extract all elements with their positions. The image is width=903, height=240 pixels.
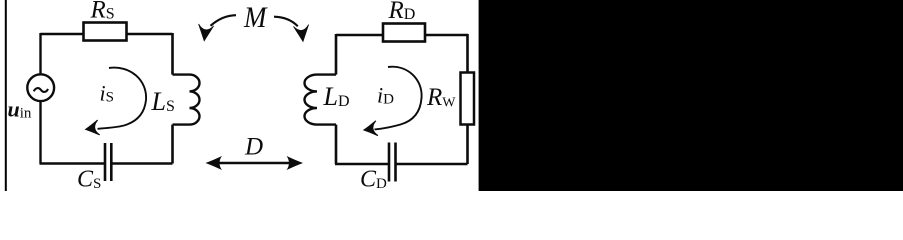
scan artifact black region right xyxy=(479,0,903,191)
svg-text:RS: RS xyxy=(90,0,115,24)
distance arrow line xyxy=(216,162,293,165)
wire: left loop right vertical lower xyxy=(171,125,174,164)
distance arrow left head xyxy=(206,156,223,170)
svg-text:iS: iS xyxy=(100,81,114,106)
wire: right loop bottom right segment xyxy=(396,163,468,166)
AC source tilde symbol xyxy=(34,88,48,92)
coupling arrow right head xyxy=(294,25,311,43)
distance arrow right head xyxy=(287,156,304,170)
wire: left loop bottom right segment xyxy=(111,162,172,165)
wire: right loop bottom left segment xyxy=(335,163,389,166)
scan artifact black bar left edge xyxy=(5,0,7,191)
wire: left loop bottom left segment xyxy=(40,162,106,165)
svg-text:RW: RW xyxy=(426,84,456,111)
coupling arrow right curve xyxy=(274,17,298,27)
wire: left loop top right segment xyxy=(127,33,173,36)
svg-text:CS: CS xyxy=(77,167,101,192)
wire: right loop left vertical upper xyxy=(335,34,338,75)
wire: left loop left vertical lower xyxy=(39,101,41,164)
svg-text:D: D xyxy=(244,134,263,161)
resistor R1 box (R_S) xyxy=(84,23,127,41)
current arrow i_S arc xyxy=(98,68,147,129)
coupling arrow left head xyxy=(197,24,214,42)
wire: right loop right vertical lower xyxy=(466,125,469,165)
inductor L2 coil (L_D) xyxy=(304,75,336,125)
wire: left loop left vertical upper xyxy=(39,33,41,75)
svg-text:RD: RD xyxy=(388,0,416,24)
resistor R2 box (R_D) xyxy=(383,24,425,42)
svg-text:LS: LS xyxy=(151,87,175,116)
wire: right loop top left segment xyxy=(336,34,383,37)
wire: right loop left vertical lower xyxy=(335,125,338,164)
svg-text:uin: uin xyxy=(8,97,32,122)
capacitor C1 (C_S) plates xyxy=(105,143,111,181)
current arrow i_S head xyxy=(85,120,100,137)
svg-text:M: M xyxy=(243,2,269,35)
wire: left loop right vertical upper xyxy=(171,33,174,75)
capacitor C2 (C_D) plates xyxy=(389,143,396,182)
svg-text:CD: CD xyxy=(360,167,387,192)
current arrow i_D arc xyxy=(375,67,422,130)
wire: right loop right vertical upper xyxy=(466,34,469,73)
svg-text:iD: iD xyxy=(377,83,394,108)
resistor R3 box (R_W) xyxy=(461,73,475,125)
wire: right loop top right segment xyxy=(425,34,468,37)
svg-text:LD: LD xyxy=(323,82,350,111)
AC source U1 circle xyxy=(27,74,54,101)
coupling arrow left curve xyxy=(211,15,237,26)
current arrow i_D head xyxy=(363,121,378,138)
inductor L1 coil (L_S) xyxy=(173,75,200,125)
wire: left loop top left segment xyxy=(41,33,84,36)
